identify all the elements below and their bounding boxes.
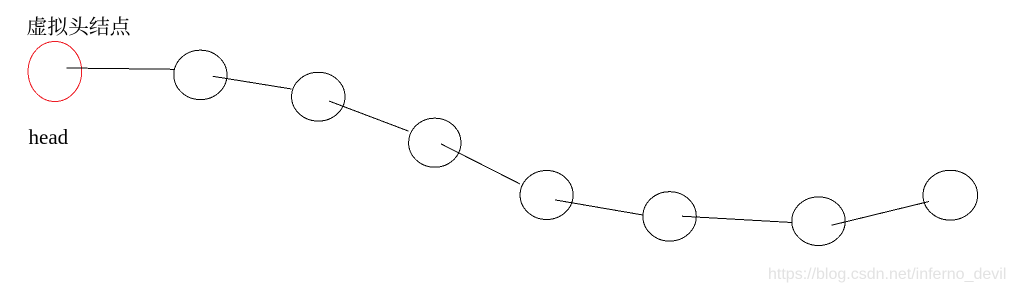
- wire virtual head (red) to node 1: [67, 68, 174, 69]
- node circle: node 2: [292, 72, 345, 121]
- wire node 3 to node 4: [441, 144, 520, 184]
- node circle: node 7: [923, 170, 978, 220]
- node circle: node 5: [643, 192, 696, 241]
- node circle: virtual head (red): [28, 42, 82, 102]
- node circle: node 1: [174, 50, 227, 99]
- wire node 5 to node 6: [682, 216, 792, 222]
- node circle: node 6: [792, 197, 845, 246]
- wire node 6 to node 7: [831, 202, 929, 226]
- wire node 4 to node 5: [555, 200, 643, 215]
- node circle: node 4: [520, 171, 573, 220]
- wire node 1 to node 2: [213, 76, 292, 89]
- label "虚拟头结点" (virtual head node annotation): [27, 16, 129, 35]
- svg-text:https://blog.csdn.net/inferno_: https://blog.csdn.net/inferno_devil: [768, 266, 1006, 283]
- node circle: node 3: [409, 118, 461, 167]
- wire node 2 to node 3: [329, 101, 409, 131]
- svg-text:head: head: [29, 125, 69, 149]
